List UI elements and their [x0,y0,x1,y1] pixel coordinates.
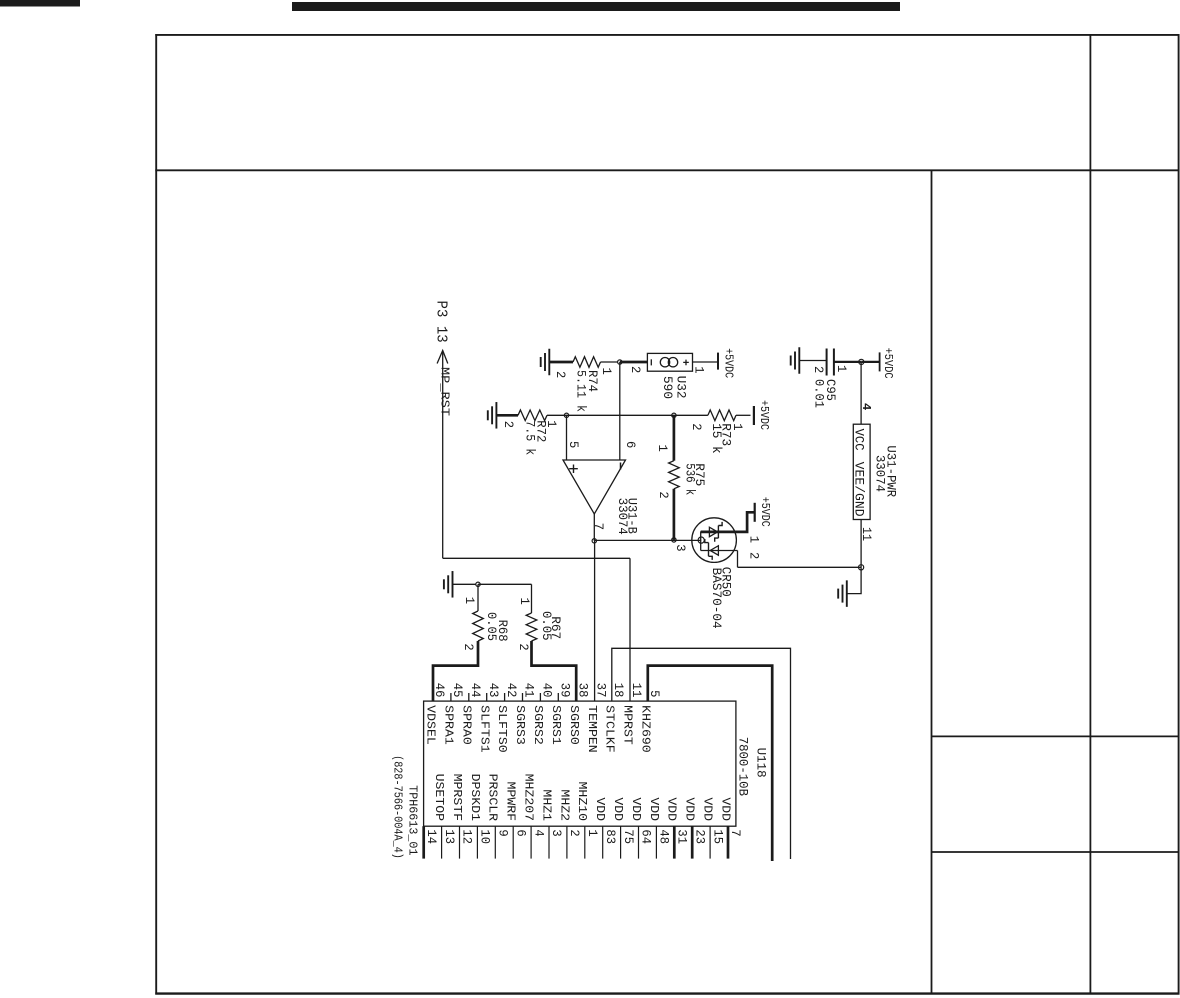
wire U118 pin 5 KHZ690 net [648,666,772,861]
R67 value label 0.05 [539,611,554,641]
svg-text:12: 12 [460,829,475,844]
C95 value label 0.01 [812,379,827,408]
op-amp U31-B [563,460,626,514]
U118 pin 75 VDD [621,797,643,858]
R73 pin 1 label [730,423,745,431]
svg-text:SLFTS0: SLFTS0 [495,705,509,753]
U118 pin 64 VDD [639,797,661,858]
svg-text:7800-10B: 7800-10B [736,737,751,797]
R72 pin 1 label [544,420,559,428]
svg-text:7: 7 [728,829,743,836]
svg-text:VDD: VDD [647,797,661,821]
node C junction [859,565,864,570]
R74 pin 2 label [553,371,568,378]
U32 refdes label [673,376,688,399]
IC U118 body [424,701,736,826]
power symbol +5VDC at C95 [880,348,896,379]
svg-text:39: 39 [558,683,573,698]
C95 pin 1 label [834,365,849,373]
R72 value label 7.5 k [523,420,538,455]
svg-text:+5VDC: +5VDC [881,348,895,379]
R72 pin 2 label [501,421,516,428]
svg-text:SLFTS1: SLFTS1 [477,705,491,753]
U31-B refdes label [625,498,640,534]
wire junction to R67 [478,583,532,585]
wire +5VDC to node B [861,361,879,363]
U118 refdes label [754,748,769,778]
power symbol +5VDC at CR50 [755,497,772,527]
R68 pin 1 label [462,597,477,605]
svg-text:6: 6 [623,441,638,448]
svg-text:41: 41 [522,683,537,698]
sheet border left edge [155,34,157,995]
wire CR50 pin 2 [737,551,739,568]
wire rail junction to R75 [673,415,676,460]
U32 pin 2 label [628,366,643,373]
wire junction to ground stem [453,583,476,585]
svg-text:SGRS0: SGRS0 [567,705,581,745]
title block divider [155,169,1179,171]
svg-text:2: 2 [746,552,761,559]
U118 pin 41 SGRS3 [513,683,537,745]
svg-text:3: 3 [673,544,688,551]
U118 pin 40 SGRS2 [531,683,555,745]
revision column divider [1089,35,1091,994]
wire R75 to output node [673,489,676,540]
svg-text:2: 2 [689,423,704,430]
resistor R74 [573,357,601,368]
node A junction [618,360,622,364]
wire op-amp output [593,514,595,541]
CR50 lower schottky diode [705,539,719,560]
U118 value label 7800-10B [736,737,751,797]
U118 pin 18 STCLKF [602,683,626,753]
svg-text:75: 75 [621,829,636,844]
R75 value label 536 k [682,463,697,495]
C95 pin 2 label [811,366,826,373]
sheet border top edge [155,34,1179,36]
R75 refdes label [692,463,707,486]
wire R73 to +5VDC [736,414,751,416]
wire output net vertical [594,539,701,541]
svg-text:PRSCLR: PRSCLR [486,774,500,822]
wire node A to U32 pin 2 [620,361,648,364]
junction rail / pin 5 [564,413,568,417]
svg-text:+5VDC: +5VDC [757,400,771,430]
wire MP_RST arrow head [437,351,448,364]
svg-text:MHZ1: MHZ1 [539,789,553,821]
CR50 internal anode bus [700,531,702,550]
power symbol +5VDC at U32 [718,348,736,378]
svg-text:46: 46 [432,683,447,698]
wire MP_RST horizontal [442,351,444,559]
svg-text:33074: 33074 [615,498,630,535]
R74 refdes label [585,370,600,392]
svg-text:P3 13: P3 13 [433,301,450,343]
U118 pin 46 VDSEL [424,683,448,745]
svg-text:7: 7 [591,523,606,530]
wire node A to R74 [601,361,618,363]
svg-text:SGRS1: SGRS1 [549,705,563,745]
C95 refdes label [823,379,838,401]
svg-text:45: 45 [450,683,465,698]
R74 value label 5.11 k [574,370,589,412]
title block row divider 2 [932,851,1180,853]
svg-text:9: 9 [496,829,511,836]
capacitor C95 [827,349,834,376]
svg-text:MHZ207: MHZ207 [522,774,536,822]
svg-text:4: 4 [531,829,546,837]
scan artifact black bar top-center [292,2,900,11]
svg-text:14: 14 [424,829,439,844]
svg-text:VDD: VDD [665,797,679,821]
wire R72 to ground [496,414,518,417]
U118 pin 15 VDD [710,797,732,858]
wire R74 to ground [549,361,573,364]
svg-text:10: 10 [478,829,493,844]
svg-text:1: 1 [462,597,477,605]
svg-text:4: 4 [859,403,873,410]
svg-text:2: 2 [656,491,671,498]
svg-text:STCLKF: STCLKF [602,705,616,753]
ground at node C [838,580,847,607]
CR50 pin 2 label [746,552,761,559]
svg-text:33074: 33074 [873,455,888,492]
svg-text:U118: U118 [754,748,769,778]
svg-text:44: 44 [468,683,483,698]
wire U31-PWR pin 11 to ground node C [860,520,862,568]
ground below R67/R68 junction [444,571,453,598]
U118 pin 3 MHZ2 [549,789,571,858]
svg-text:VEE/GND: VEE/GND [852,462,867,517]
svg-text:KHZ690: KHZ690 [638,705,652,753]
node B junction [859,359,864,364]
svg-text:42: 42 [504,683,519,698]
svg-text:11: 11 [629,683,644,698]
CR50 value label BAS70-04 [709,568,724,629]
svg-text:64: 64 [639,829,654,844]
U118 pin 37 TEMPEN [585,683,609,753]
svg-text:SPRA1: SPRA1 [442,705,456,745]
U118 pin 14 USETOP [424,774,446,859]
svg-text:VDD: VDD [611,797,625,821]
off-page connector P3 pin 13 label [433,301,450,343]
wire CR50 pin 1 to +5VDC [736,512,755,532]
svg-text:1: 1 [834,365,849,373]
svg-text:MPRST: MPRST [621,705,635,745]
svg-text:590: 590 [660,376,675,399]
svg-text:2: 2 [516,643,531,650]
svg-text:7.5 k: 7.5 k [523,420,538,455]
U31-PWR pin 4 label [859,403,873,410]
svg-text:USETOP: USETOP [432,774,446,822]
svg-text:11: 11 [859,527,874,541]
svg-text:536 k: 536 k [682,463,697,495]
svg-text:43: 43 [486,683,501,698]
svg-text:MPRSTF: MPRSTF [450,774,464,822]
U118 pin 23 VDD [692,797,714,858]
U31-PWR refdes label [884,445,899,497]
R74 pin 1 label [599,368,614,376]
svg-text:5: 5 [566,441,581,448]
wire node B to C95 [834,361,861,363]
svg-text:2: 2 [501,421,516,428]
R67 pin 2 label [516,643,531,650]
title block divider vertical [931,170,933,993]
R73 pin 2 label [689,423,704,430]
U118 pin 11 MPRST [621,683,645,745]
U118 pin 13 MPRSTF [442,774,464,859]
svg-text:48: 48 [657,829,672,844]
U118 pin 5 KHZ690 [638,690,662,753]
svg-text:VDD: VDD [593,797,607,821]
U31-PWR value label 33074 [873,455,888,492]
svg-text:2: 2 [567,829,582,836]
svg-text:18: 18 [611,683,626,698]
U118 pin 44 SPRA0 [459,683,483,745]
svg-text:BAS70-04: BAS70-04 [709,568,724,629]
diode CR50 body circle [692,518,737,563]
U118 pin 45 SPRA1 [442,683,466,745]
U118 pin 42 SLFTS0 [495,683,519,753]
net label MP_RST [437,367,451,416]
R68 refdes label [495,620,510,642]
svg-text:38: 38 [575,683,590,698]
R68 pin 2 label [461,643,476,650]
svg-text:0.05: 0.05 [484,612,499,641]
U118 pin 4 MHZ1 [531,789,553,858]
wire input rail vertical [547,414,708,416]
scan artifact black bar top-left [0,0,80,7]
svg-text:15: 15 [710,829,725,844]
svg-text:13: 13 [442,829,457,844]
svg-text:VCC: VCC [852,429,867,451]
svg-text:VDD: VDD [718,797,732,821]
U118 pin 6 MHZ207 [513,774,535,859]
svg-text:MP_RST: MP_RST [437,367,451,416]
ground below R74 [541,349,550,376]
junction R67/R68/ground [476,582,480,586]
wire node C to ground [847,567,861,593]
U32 pin 1 label [692,366,707,374]
CR50 refdes label [718,567,733,597]
svg-text:2: 2 [811,366,826,373]
sensor U32 body [647,353,692,371]
wire rail to op-amp pin 5 [566,415,568,460]
R73 refdes label [719,423,734,446]
resistor R68 [473,611,484,641]
drawing number TPH6613_01 [405,785,419,855]
R72 refdes label [534,420,549,442]
svg-text:VDD: VDD [683,797,697,821]
svg-text:5.11 k: 5.11 k [574,370,589,412]
CR50 pin 2 internal net [701,550,738,552]
junction R75 / output net [672,538,676,542]
U118 pin 31 VDD [674,797,696,858]
svg-text:VDSEL: VDSEL [424,705,438,745]
resistor R67 [526,613,537,641]
R68 value label 0.05 [484,612,499,641]
R67 pin 1 label [517,598,532,606]
CR50 pin 3 connection circle [698,537,704,543]
op-amp power block U31-PWR [852,424,871,519]
wire C95 to ground [799,360,826,362]
CR50 pin 3 label [673,544,688,551]
svg-text:83: 83 [603,829,618,844]
svg-text:1: 1 [692,366,707,374]
svg-text:6: 6 [513,829,528,836]
wire R68 to U118 pin 46 VDSEL [433,641,478,701]
wire U32 pin 1 to +5VDC [693,361,719,363]
svg-text:+5VDC: +5VDC [722,348,736,378]
svg-text:40: 40 [540,683,555,698]
U32 value label 590 [660,376,675,399]
U118 pin 1 VDD [585,797,607,858]
R73 value label 15 k [709,423,724,454]
svg-text:2: 2 [461,643,476,650]
wire node C to CR50 pin 2 [738,566,862,568]
svg-text:1: 1 [730,423,745,431]
svg-text:23: 23 [692,829,707,844]
CR50 pin 1 internal net [701,531,736,534]
CR50 pin 1 label [746,536,761,544]
U118 pin 10 PRSCLR [477,774,499,859]
U31-PWR pin 11 label [859,527,874,541]
svg-text:31: 31 [675,829,690,844]
svg-text:1: 1 [599,368,614,376]
U118 pin 48 VDD [656,797,678,858]
wire MPRST to U118 pin 11 [629,558,631,701]
U118 pin 83 VDD [603,797,625,858]
U118 pin 43 SLFTS1 [477,683,501,753]
svg-text:MHZ2: MHZ2 [557,789,571,821]
svg-text:0.05: 0.05 [539,611,554,641]
sheet border right edge [1178,34,1180,995]
svg-text:2: 2 [553,371,568,378]
op-amp pin 7 label [591,523,606,530]
svg-text:1: 1 [517,598,532,606]
U118 pin 39 SGRS1 [549,683,573,745]
ground below R72 [488,402,497,429]
svg-text:TEMPEN: TEMPEN [585,705,599,753]
drawing number (828-7566-004A_4) [391,755,405,859]
svg-text:1: 1 [746,536,761,544]
U31-B value label 33074 [615,498,630,535]
svg-text:DPSKD1: DPSKD1 [468,774,482,822]
svg-text:0.01: 0.01 [812,379,827,408]
svg-text:1: 1 [585,829,600,837]
svg-text:5: 5 [647,690,662,697]
op-amp pin 5 label [566,441,581,448]
svg-text:37: 37 [594,683,609,698]
svg-text:SGRS3: SGRS3 [513,705,527,745]
junction rail / R75 [672,413,676,417]
R75 pin 1 label [655,445,670,453]
wire MP_RST vertical to pin 11 row [443,557,630,559]
R75 pin 2 label [656,491,671,498]
sheet border bottom edge [155,992,1179,994]
wire node B to U31-PWR pin 4 [860,362,862,424]
svg-text:TPH6613_01: TPH6613_01 [405,785,419,855]
wire junction to R68 [477,584,479,611]
svg-text:MPWRF: MPWRF [504,782,518,822]
resistor R73 [708,410,736,421]
CR50 upper schottky diode [709,522,722,542]
power symbol +5VDC at R73 [754,400,771,430]
svg-text:MHZ10: MHZ10 [575,782,589,822]
svg-text:(828-7566-004A_4): (828-7566-004A_4) [391,755,405,859]
svg-text:VDD: VDD [629,797,643,821]
svg-text:3: 3 [549,829,564,836]
junction op-amp output [592,539,596,543]
wire node A to op-amp pin 6 [619,362,621,460]
wire R67 lead [531,584,533,613]
svg-text:SGRS2: SGRS2 [531,705,545,745]
svg-text:2: 2 [628,366,643,373]
U118 pin 12 DPSKD1 [460,774,482,859]
wire U118 pin 18 STCLKF net [612,648,791,859]
U118 pin 38 SGRS0 [567,683,591,745]
op-amp pin 6 label [623,441,638,448]
resistor R75 [669,461,680,489]
wire output to U118 pin 37 TEMPEN [594,541,596,701]
U118 pin 7 VDD [728,826,743,858]
resistor R72 [518,410,547,421]
wire R67 to U118 pin 38 SGRS0 [532,641,577,701]
ground below C95 [791,347,800,374]
svg-text:SPRA0: SPRA0 [459,705,473,745]
U118 pin 2 MHZ10 [567,782,589,859]
svg-text:VDD: VDD [701,797,715,821]
U118 pin 9 MPWRF [495,782,517,859]
svg-text:15 k: 15 k [709,423,724,454]
R67 refdes label [548,616,563,639]
svg-text:1: 1 [655,445,670,453]
title block row divider 1 [932,735,1180,737]
svg-text:+5VDC: +5VDC [758,497,772,527]
